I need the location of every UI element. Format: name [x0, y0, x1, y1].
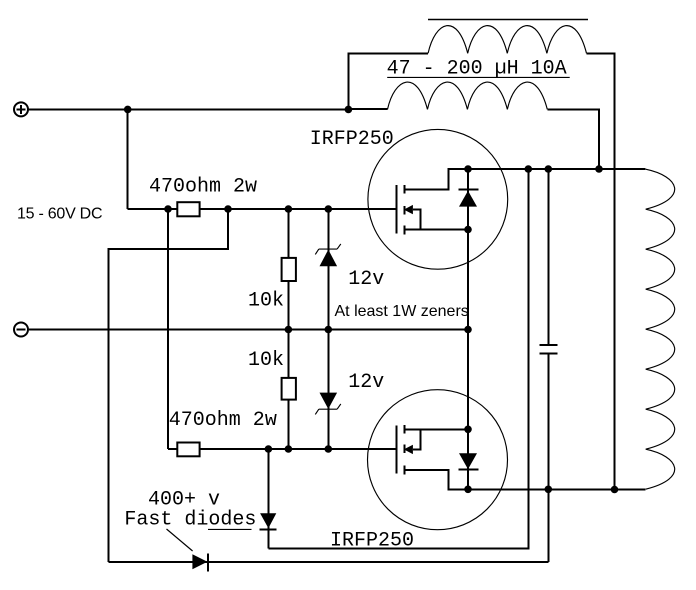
Q1 body diode [459, 169, 479, 229]
wire: winding A to tank rail [587, 53, 615, 489]
Q2 gate bar [395, 425, 397, 473]
Q1 channel mid segment [404, 206, 406, 215]
wire: tap to choke winding A [348, 53, 428, 109]
resistor R1 470ohm 2w [177, 202, 199, 216]
junction: gate row / zener chain [325, 205, 333, 213]
zener Z1 12v [315, 244, 341, 266]
junction: Q2 drain [464, 486, 472, 494]
wire: winding B to drain rail [547, 109, 599, 169]
transistor Q2 body circle [368, 390, 508, 530]
wire: Q1 gate row [128, 208, 397, 210]
resistor R3 10k [282, 258, 296, 281]
Q2 drain lead [405, 470, 468, 490]
inductor L1 winding B [388, 82, 548, 109]
transistor Q1 body circle [368, 129, 508, 269]
wire: mid 0V row [29, 329, 468, 331]
svg-text:470ohm 2w: 470ohm 2w [169, 409, 277, 432]
Q1 channel top segment [404, 185, 406, 194]
zener Z2 12v [315, 393, 341, 415]
leader line to D2 [167, 529, 193, 551]
Q1 gate bar [395, 185, 397, 233]
capacitor C1 [540, 169, 558, 562]
junction: +V rail / choke tap [345, 106, 353, 114]
svg-text:12v: 12v [348, 268, 384, 291]
label: Fast diodes [124, 509, 256, 532]
svg-text:Fast diodes: Fast diodes [124, 509, 256, 532]
inductor L1 core bar [428, 19, 588, 21]
wire: bottom feedback row [109, 561, 549, 563]
junction: winding B / drain rail [595, 165, 603, 173]
inductor L2 (tank coil) [646, 169, 675, 489]
Q2 channel top segment [404, 425, 406, 434]
resistor R2 470ohm 2w [177, 443, 199, 457]
junction: bottom rail / capacitor branch [545, 486, 553, 494]
Q2 channel mid segment [404, 444, 406, 453]
junction: rail / feedback branch [525, 165, 533, 173]
junction: mid row / zener chain [325, 326, 333, 334]
junction: gate row / 10k chain [285, 205, 293, 213]
svg-text:10k: 10k [248, 349, 284, 372]
wire: feedback right column x=528.3 [268, 169, 528, 549]
Q1 drain lead [405, 169, 468, 190]
junction: bottom rail / winding A column [611, 486, 619, 494]
svg-text:IRFP250: IRFP250 [310, 128, 394, 151]
wire: zener column [327, 209, 329, 449]
junction: Q2 source [464, 426, 472, 434]
wire: top drain rail [468, 168, 646, 170]
svg-text:470ohm 2w: 470ohm 2w [149, 176, 257, 199]
junction: gate2 row / zener chain [325, 445, 333, 453]
wire: R1 feed drop [127, 109, 129, 209]
junction: mid row / center column [464, 326, 472, 334]
Q2 source lead [405, 428, 468, 430]
Q2 channel bottom segment [404, 465, 406, 474]
junction: gate2 row / D1 [265, 445, 273, 453]
resistor R4 10k [282, 378, 296, 400]
svg-text:10k: 10k [248, 290, 284, 313]
Q2 body arrow [404, 429, 421, 454]
junction: mid row / 10k chain [285, 326, 293, 334]
wire: 10k divider column [287, 209, 289, 449]
Q2 body diode [459, 429, 479, 489]
svg-text:12v: 12v [348, 371, 384, 394]
wire: +V rail [28, 108, 348, 110]
junction: gate2 row / 10k chain [285, 445, 293, 453]
wire: center column [467, 230, 469, 430]
label: 47 - 200 uH 10A [387, 58, 570, 81]
terminal + (positive supply) [14, 102, 28, 116]
wire: tap to winding B [348, 108, 387, 110]
junction: +V rail / R1 feed [124, 106, 132, 114]
inductor L1 winding A (47-200 uH) [428, 26, 586, 54]
junction: Q1 drain [464, 165, 472, 173]
diode D1 (fast, vertical) [260, 449, 277, 549]
Q1 channel bottom segment [404, 225, 406, 234]
svg-text:At least 1W zeners: At least 1W zeners [335, 303, 469, 320]
svg-text:15 - 60V DC: 15 - 60V DC [17, 206, 102, 223]
junction: Q1 source [464, 226, 472, 234]
junction: gate row / cross feedback [224, 205, 232, 213]
wire: R2 feed column [167, 209, 169, 449]
junction: gate row / R2 feed [164, 205, 172, 213]
wire: Q2 gate row [168, 448, 396, 450]
diode D2 (fast, horizontal) [192, 554, 208, 572]
junction: rail / capacitor branch [545, 165, 553, 173]
Q1 source lead [405, 229, 468, 231]
Q1 body arrow [404, 205, 421, 230]
terminal - (negative supply) [14, 323, 28, 337]
wire: gate1 cross-feedback jog [109, 209, 228, 562]
wire: bottom drain rail [468, 488, 646, 490]
